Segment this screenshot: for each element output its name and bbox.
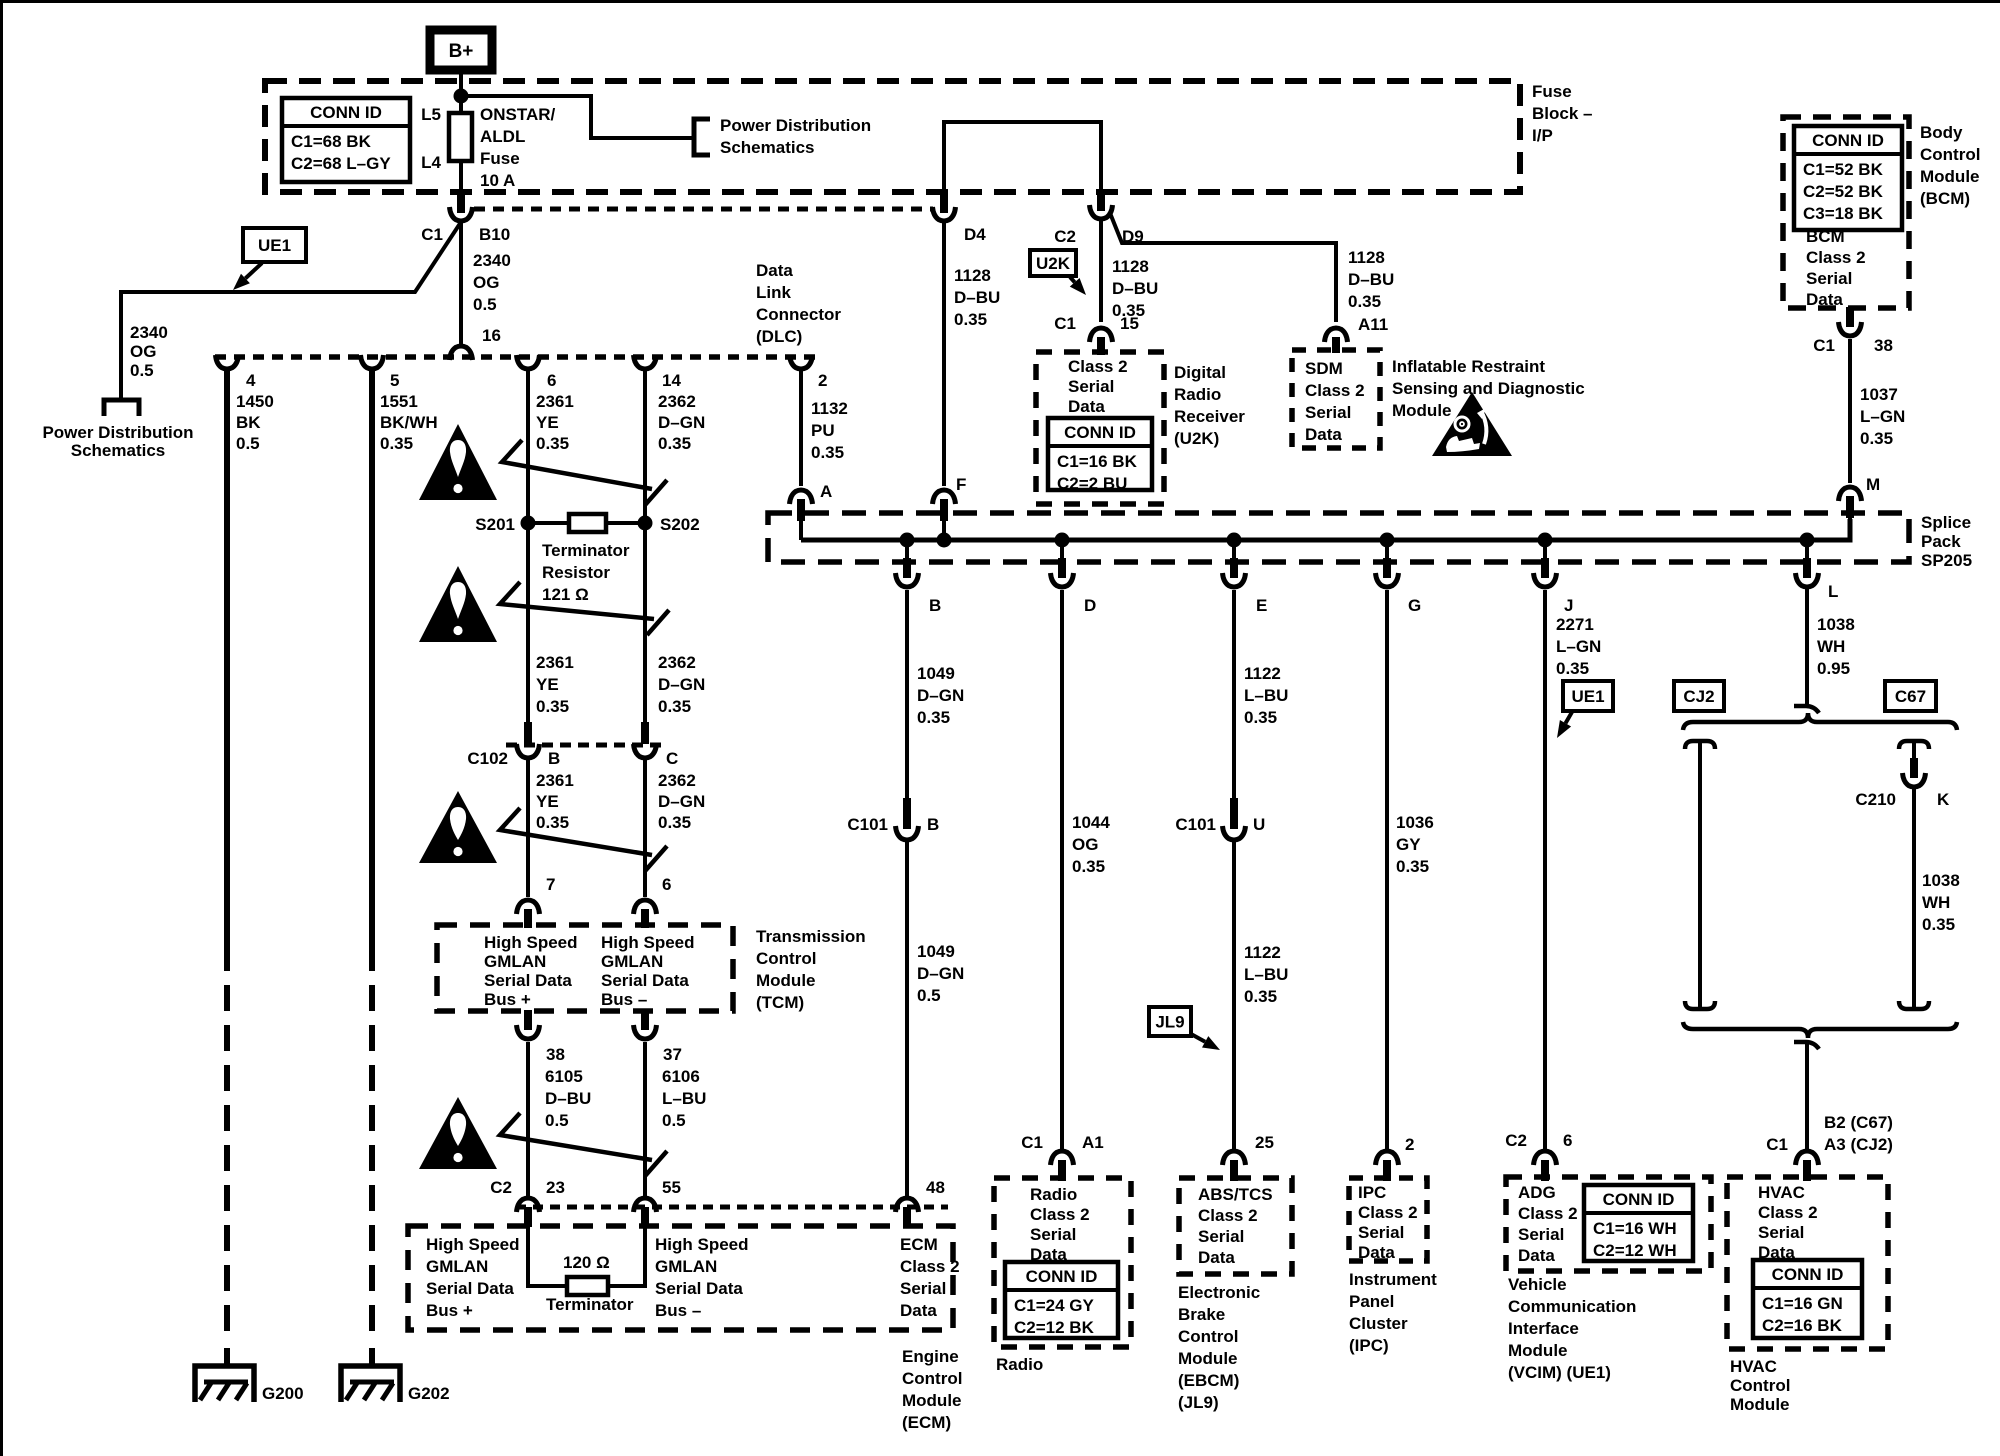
svg-text:7: 7 (546, 875, 555, 894)
svg-text:Module: Module (902, 1391, 962, 1410)
svg-text:0.5: 0.5 (473, 295, 497, 314)
option tag CJ2 (1674, 681, 1724, 711)
svg-text:Data: Data (900, 1301, 937, 1320)
TCM pin 38 terminal (517, 1025, 540, 1039)
svg-text:2362: 2362 (658, 771, 696, 790)
splice L stub (1803, 558, 1811, 578)
svg-text:B+: B+ (449, 41, 474, 62)
svg-text:1044: 1044 (1072, 813, 1110, 832)
CJ2 branch cap top (1685, 741, 1715, 749)
ECM pin 48 terminal (896, 1198, 919, 1212)
svg-text:Schematics: Schematics (720, 138, 815, 157)
svg-text:Serial: Serial (1305, 403, 1351, 422)
wire 1038 WH 0.95 (1805, 588, 1809, 706)
svg-text:1128: 1128 (1348, 248, 1385, 267)
svg-text:Block –: Block – (1532, 104, 1592, 123)
svg-text:4: 4 (246, 371, 256, 390)
svg-text:High Speed: High Speed (484, 933, 578, 952)
svg-text:0.35: 0.35 (536, 434, 569, 453)
svg-text:GMLAN: GMLAN (426, 1257, 488, 1276)
svg-text:2362: 2362 (658, 653, 696, 672)
radio pin A1 terminal (1051, 1151, 1074, 1165)
svg-text:0.35: 0.35 (811, 443, 844, 462)
svg-text:C1: C1 (1813, 336, 1835, 355)
svg-text:6106: 6106 (662, 1067, 700, 1086)
splice junction J (1538, 533, 1553, 548)
svg-text:L–GN: L–GN (1556, 637, 1601, 656)
conn id table HVAC (1753, 1260, 1862, 1338)
arrow JL9 (1191, 1034, 1205, 1042)
junction B+ fuse (454, 89, 469, 104)
svg-text:38: 38 (546, 1045, 565, 1064)
pin 6 terminal (517, 355, 540, 369)
svg-text:10 A: 10 A (480, 171, 515, 190)
U2K pin 15 terminal (1090, 328, 1113, 342)
C101 pin U terminal (1223, 826, 1246, 840)
svg-text:D–GN: D–GN (917, 686, 964, 705)
C102 pin C terminal (634, 744, 657, 758)
svg-text:Serial Data: Serial Data (426, 1279, 514, 1298)
C67 branch wire upper (1912, 741, 1916, 760)
wire 1551 BK/WH dashed (369, 945, 375, 1341)
svg-text:F: F (956, 475, 966, 494)
svg-text:C102: C102 (467, 749, 508, 768)
svg-text:C2=52 BK: C2=52 BK (1803, 182, 1884, 201)
ground G202 (341, 1366, 400, 1402)
wire 1049 upper (905, 590, 909, 800)
svg-text:Control: Control (902, 1369, 962, 1388)
svg-text:U2K: U2K (1036, 254, 1071, 273)
pin 14 terminal (634, 355, 657, 369)
resistor terminator 121 ohm (569, 514, 606, 532)
svg-text:6: 6 (1563, 1131, 1572, 1150)
wire 1122 upper (1232, 590, 1236, 800)
svg-text:2361: 2361 (536, 771, 574, 790)
off-page bracket power distribution (694, 119, 710, 155)
svg-text:J: J (1564, 596, 1573, 615)
svg-text:A1: A1 (1082, 1133, 1104, 1152)
svg-text:0.35: 0.35 (658, 813, 691, 832)
svg-text:1128: 1128 (954, 266, 991, 285)
conn id table U2K (1048, 418, 1152, 490)
svg-text:(DLC): (DLC) (756, 327, 802, 346)
option tag UE1 (243, 228, 306, 262)
pin D4 terminal (933, 207, 956, 221)
splice B terminal (896, 573, 919, 587)
svg-text:Data: Data (1518, 1246, 1555, 1265)
svg-text:1450: 1450 (236, 392, 274, 411)
svg-text:SP205: SP205 (1921, 551, 1972, 570)
svg-text:Serial: Serial (1358, 1223, 1404, 1242)
radio pin A1 stub (1058, 1160, 1066, 1181)
svg-text:UE1: UE1 (258, 236, 291, 255)
splice S201 (521, 516, 536, 531)
svg-text:Control: Control (1730, 1376, 1790, 1395)
svg-text:Data: Data (1806, 290, 1843, 309)
svg-text:Vehicle: Vehicle (1508, 1275, 1567, 1294)
svg-text:Engine: Engine (902, 1347, 959, 1366)
wire 1044 OG (1060, 590, 1064, 1151)
wire 1551 BK/WH solid (369, 369, 375, 945)
svg-text:Class 2: Class 2 (1030, 1205, 1090, 1224)
svg-text:D–GN: D–GN (658, 413, 705, 432)
splice E stub (1230, 558, 1238, 578)
svg-text:L–GN: L–GN (1860, 407, 1905, 426)
ECM pin 23 stub (524, 1207, 532, 1227)
body control module BCM box (1783, 117, 1909, 308)
arrow UE1 (245, 263, 262, 278)
svg-text:2361: 2361 (536, 653, 574, 672)
svg-text:Bus –: Bus – (655, 1301, 701, 1320)
svg-text:Serial Data: Serial Data (601, 971, 689, 990)
C67 branch cap top (1899, 741, 1929, 749)
wire tap to power distribution (461, 96, 694, 138)
svg-text:OG: OG (130, 342, 156, 361)
wire into fuse (459, 96, 463, 114)
svg-text:1038: 1038 (1922, 871, 1960, 890)
svg-text:1038: 1038 (1817, 615, 1855, 634)
svg-text:Serial: Serial (1198, 1227, 1244, 1246)
option tag U2K (1030, 250, 1076, 276)
svg-text:YE: YE (536, 413, 559, 432)
svg-text:SDM: SDM (1305, 359, 1343, 378)
svg-text:Radio: Radio (996, 1355, 1043, 1374)
svg-text:OG: OG (1072, 835, 1098, 854)
svg-text:Pack: Pack (1921, 532, 1961, 551)
svg-text:C1: C1 (1766, 1135, 1788, 1154)
svg-text:2: 2 (818, 371, 827, 390)
svg-text:K: K (1937, 790, 1950, 809)
svg-text:Digital: Digital (1174, 363, 1226, 382)
wire 1122 lower (1232, 841, 1236, 1151)
svg-text:1049: 1049 (917, 664, 955, 683)
conn id table fuse block (282, 98, 410, 182)
HVAC pin stub (1803, 1160, 1811, 1181)
svg-text:1132: 1132 (811, 399, 848, 418)
svg-text:Data: Data (1198, 1248, 1235, 1267)
C210 pin K terminal (1903, 773, 1926, 787)
pin D9 terminal (1090, 205, 1113, 219)
svg-text:D–GN: D–GN (658, 675, 705, 694)
splice M terminal (1839, 487, 1862, 501)
svg-text:Serial: Serial (900, 1279, 946, 1298)
svg-text:Data: Data (1358, 1243, 1395, 1262)
engine control module ECM box (408, 1226, 953, 1330)
svg-text:Class 2: Class 2 (1068, 357, 1128, 376)
svg-text:C2=2 BU: C2=2 BU (1057, 474, 1127, 493)
svg-text:37: 37 (663, 1045, 682, 1064)
splice junction D (1055, 533, 1070, 548)
svg-text:UE1: UE1 (1571, 687, 1604, 706)
wire 2361 to TCM (526, 758, 530, 897)
BCM pin 38 stub (1846, 307, 1854, 327)
svg-text:C1=16 BK: C1=16 BK (1057, 452, 1138, 471)
splice junction L (1800, 533, 1815, 548)
svg-text:Module: Module (1730, 1395, 1790, 1414)
splice A stub (797, 499, 805, 521)
svg-text:Splice: Splice (1921, 513, 1971, 532)
svg-text:High Speed: High Speed (426, 1235, 520, 1254)
svg-text:Serial: Serial (1068, 377, 1114, 396)
svg-text:C1: C1 (1021, 1133, 1043, 1152)
crossing arrow note 3 (500, 808, 667, 871)
wire 2362 to TCM (643, 758, 647, 897)
connector C2 ECM dotted line (516, 1205, 948, 1210)
svg-text:C101: C101 (1175, 815, 1216, 834)
svg-text:2271: 2271 (1556, 615, 1594, 634)
svg-text:WH: WH (1817, 637, 1845, 656)
svg-text:CONN ID: CONN ID (310, 103, 382, 122)
svg-text:2340: 2340 (130, 323, 168, 342)
svg-text:0.35: 0.35 (536, 813, 569, 832)
svg-text:G: G (1408, 596, 1421, 615)
svg-text:Bus –: Bus – (601, 990, 647, 1009)
svg-text:Body: Body (1920, 123, 1963, 142)
arrow UE1 right (1566, 712, 1573, 723)
svg-text:Serial: Serial (1806, 269, 1852, 288)
svg-text:Module: Module (1392, 401, 1452, 420)
svg-text:C1=52 BK: C1=52 BK (1803, 160, 1884, 179)
splice pack SP205 box (768, 513, 1909, 562)
pin 2 terminal (790, 355, 813, 369)
svg-text:C2=68 L–GY: C2=68 L–GY (291, 154, 391, 173)
ECM pin 48 stub (903, 1207, 911, 1227)
svg-text:D–GN: D–GN (658, 792, 705, 811)
svg-text:Class 2: Class 2 (1806, 248, 1866, 267)
TCM pin 6 terminal (634, 900, 657, 914)
resistor terminator 120 ohm (567, 1277, 608, 1295)
svg-text:0.35: 0.35 (1860, 429, 1893, 448)
option tag C67 (1885, 681, 1936, 711)
connector C1 face dotted line (474, 207, 933, 212)
svg-text:Serial Data: Serial Data (484, 971, 572, 990)
svg-text:55: 55 (662, 1178, 681, 1197)
svg-text:Schematics: Schematics (71, 441, 166, 460)
TCM pin 7 stub (524, 909, 532, 928)
svg-text:(U2K): (U2K) (1174, 429, 1219, 448)
svg-text:OG: OG (473, 273, 499, 292)
svg-text:Electronic: Electronic (1178, 1283, 1260, 1302)
svg-text:B: B (548, 749, 560, 768)
svg-text:25: 25 (1255, 1133, 1274, 1152)
svg-text:C1: C1 (1054, 314, 1076, 333)
C210 pin K stub (1910, 758, 1918, 778)
svg-text:C1=16 GN: C1=16 GN (1762, 1294, 1843, 1313)
svg-text:Fuse: Fuse (1532, 82, 1572, 101)
svg-text:C2=12 WH: C2=12 WH (1593, 1241, 1677, 1260)
svg-text:C3=18 BK: C3=18 BK (1803, 204, 1884, 223)
pin D9 stub (1097, 191, 1105, 211)
svg-text:1122: 1122 (1244, 943, 1281, 962)
svg-text:CONN ID: CONN ID (1026, 1267, 1098, 1286)
svg-text:0.35: 0.35 (1072, 857, 1105, 876)
svg-text:GMLAN: GMLAN (484, 952, 546, 971)
wire 2362 D-GN upper (643, 369, 647, 722)
svg-text:C67: C67 (1895, 687, 1926, 706)
svg-text:C1=16 WH: C1=16 WH (1593, 1219, 1677, 1238)
C102 pin B stub (524, 722, 532, 744)
svg-text:0.35: 0.35 (954, 310, 987, 329)
wire 2271 L-GN (1543, 590, 1547, 1151)
svg-text:0.5: 0.5 (236, 434, 260, 453)
svg-text:D: D (1084, 596, 1096, 615)
svg-text:HVAC: HVAC (1758, 1183, 1805, 1202)
svg-text:I/P: I/P (1532, 126, 1553, 145)
svg-text:0.35: 0.35 (917, 708, 950, 727)
svg-text:C2: C2 (1054, 227, 1076, 246)
wire to HVAC (1805, 1042, 1809, 1151)
splice B lead (905, 540, 909, 562)
svg-text:C1=68 BK: C1=68 BK (291, 132, 372, 151)
svg-text:Interface: Interface (1508, 1319, 1579, 1338)
svg-text:D4: D4 (964, 225, 986, 244)
svg-text:Class 2: Class 2 (1198, 1206, 1258, 1225)
splice D lead (1060, 540, 1064, 562)
svg-text:Module: Module (1178, 1349, 1238, 1368)
svg-text:Power Distribution: Power Distribution (42, 423, 193, 442)
svg-text:Class 2: Class 2 (900, 1257, 960, 1276)
wire split hook (1794, 706, 1819, 713)
svg-text:ABS/TCS: ABS/TCS (1198, 1185, 1273, 1204)
svg-text:0.35: 0.35 (658, 697, 691, 716)
svg-text:C101: C101 (847, 815, 888, 834)
svg-text:GMLAN: GMLAN (655, 1257, 717, 1276)
svg-text:Power Distribution: Power Distribution (720, 116, 871, 135)
svg-text:C1: C1 (421, 225, 443, 244)
TCM pin 7 terminal (517, 900, 540, 914)
svg-text:Inflatable Restraint: Inflatable Restraint (1392, 357, 1545, 376)
C67 branch cap bottom (1899, 1001, 1929, 1009)
svg-text:1128: 1128 (1112, 257, 1149, 276)
splice junction B (900, 533, 915, 548)
C102 pin C stub (641, 722, 649, 744)
svg-text:Bus +: Bus + (484, 990, 531, 1009)
svg-text:L5: L5 (421, 105, 441, 124)
pin 4 terminal (216, 355, 239, 369)
svg-text:WH: WH (1922, 893, 1950, 912)
wire 6106 to ECM (643, 1042, 647, 1196)
svg-text:CONN ID: CONN ID (1812, 131, 1884, 150)
SDM box (1292, 350, 1380, 448)
svg-text:BK/WH: BK/WH (380, 413, 438, 432)
BCM pin 38 terminal (1839, 322, 1862, 336)
svg-text:CJ2: CJ2 (1683, 687, 1714, 706)
splice M stub (1846, 496, 1854, 518)
svg-text:0.5: 0.5 (917, 986, 941, 1005)
svg-text:D–BU: D–BU (1348, 270, 1394, 289)
warning triangle 3 (419, 791, 497, 863)
svg-text:1122: 1122 (1244, 664, 1281, 683)
fuse F1 ONSTAR/ALDL 10A (449, 113, 472, 161)
VCIM pin 6 terminal (1534, 1151, 1557, 1165)
options merge brace bottom (1683, 1022, 1957, 1038)
svg-text:GY: GY (1396, 835, 1421, 854)
svg-text:C2: C2 (1505, 1131, 1527, 1150)
svg-text:Connector: Connector (756, 305, 841, 324)
svg-text:Radio: Radio (1174, 385, 1221, 404)
svg-text:C: C (666, 749, 678, 768)
svg-text:C2=12 BK: C2=12 BK (1014, 1318, 1095, 1337)
splice junction E (1227, 533, 1242, 548)
svg-text:Receiver: Receiver (1174, 407, 1245, 426)
wire 1450 BK solid (224, 369, 230, 945)
warning triangle 2 (419, 566, 497, 642)
off-page bracket left (104, 400, 139, 416)
svg-text:2: 2 (1405, 1135, 1414, 1154)
svg-text:C210: C210 (1855, 790, 1896, 809)
svg-text:D–BU: D–BU (1112, 279, 1158, 298)
svg-text:(BCM): (BCM) (1920, 189, 1970, 208)
splice F stub (940, 499, 948, 521)
splice D stub (1058, 558, 1066, 578)
svg-text:ECM: ECM (900, 1235, 938, 1254)
options split brace top (1683, 713, 1957, 730)
svg-text:Class 2: Class 2 (1358, 1203, 1418, 1222)
svg-text:1551: 1551 (380, 392, 418, 411)
wire 16 segment (459, 222, 463, 344)
splice M lead (1848, 518, 1852, 540)
svg-text:0.5: 0.5 (545, 1111, 569, 1130)
svg-text:(EBCM): (EBCM) (1178, 1371, 1239, 1390)
svg-text:D–BU: D–BU (954, 288, 1000, 307)
wire B+ to fuse block (459, 70, 463, 96)
splice L lead (1805, 540, 1809, 562)
TCM pin 37 terminal (634, 1025, 657, 1039)
svg-text:G202: G202 (408, 1384, 450, 1403)
wire branch 2340 to power dist (121, 222, 461, 399)
splice E terminal (1223, 573, 1246, 587)
ABS TCS box (1179, 1178, 1292, 1274)
splice D terminal (1051, 573, 1074, 587)
svg-text:CONN ID: CONN ID (1064, 423, 1136, 442)
svg-text:14: 14 (662, 371, 681, 390)
wire 1037 L-GN (1848, 339, 1852, 483)
svg-text:Radio: Radio (1030, 1185, 1077, 1204)
svg-text:15: 15 (1120, 314, 1139, 333)
svg-text:JL9: JL9 (1155, 1013, 1184, 1032)
svg-text:Instrument: Instrument (1349, 1270, 1437, 1289)
digital radio receiver box (1036, 352, 1164, 504)
arrow U2K (1070, 277, 1075, 282)
EBCM pin 25 terminal (1223, 1151, 1246, 1165)
svg-text:A3 (CJ2): A3 (CJ2) (1824, 1135, 1893, 1154)
svg-text:Data: Data (756, 261, 793, 280)
wire 2361 YE upper (526, 369, 530, 722)
svg-text:5: 5 (390, 371, 399, 390)
splice J lead (1543, 540, 1547, 562)
IPC pin 2 terminal (1376, 1151, 1399, 1165)
svg-text:6105: 6105 (545, 1067, 583, 1086)
svg-text:0.35: 0.35 (536, 697, 569, 716)
TCM pin 6 stub (641, 909, 649, 928)
svg-text:2361: 2361 (536, 392, 574, 411)
svg-text:High Speed: High Speed (601, 933, 695, 952)
option tag JL9 (1149, 1007, 1191, 1036)
svg-text:0.35: 0.35 (1244, 708, 1277, 727)
svg-text:Data: Data (1305, 425, 1342, 444)
svg-text:GMLAN: GMLAN (601, 952, 663, 971)
svg-text:C1=24 GY: C1=24 GY (1014, 1296, 1095, 1315)
transmission control module TCM box (437, 925, 733, 1011)
svg-text:0.5: 0.5 (130, 361, 154, 380)
svg-text:S201: S201 (475, 515, 515, 534)
wire 1450 BK dashed (224, 945, 230, 1341)
svg-text:0.35: 0.35 (1922, 915, 1955, 934)
HVAC pin terminal (1796, 1151, 1819, 1165)
connector C102 dotted line (506, 743, 662, 748)
VCIM pin 6 stub (1541, 1160, 1549, 1181)
svg-text:U: U (1253, 815, 1265, 834)
